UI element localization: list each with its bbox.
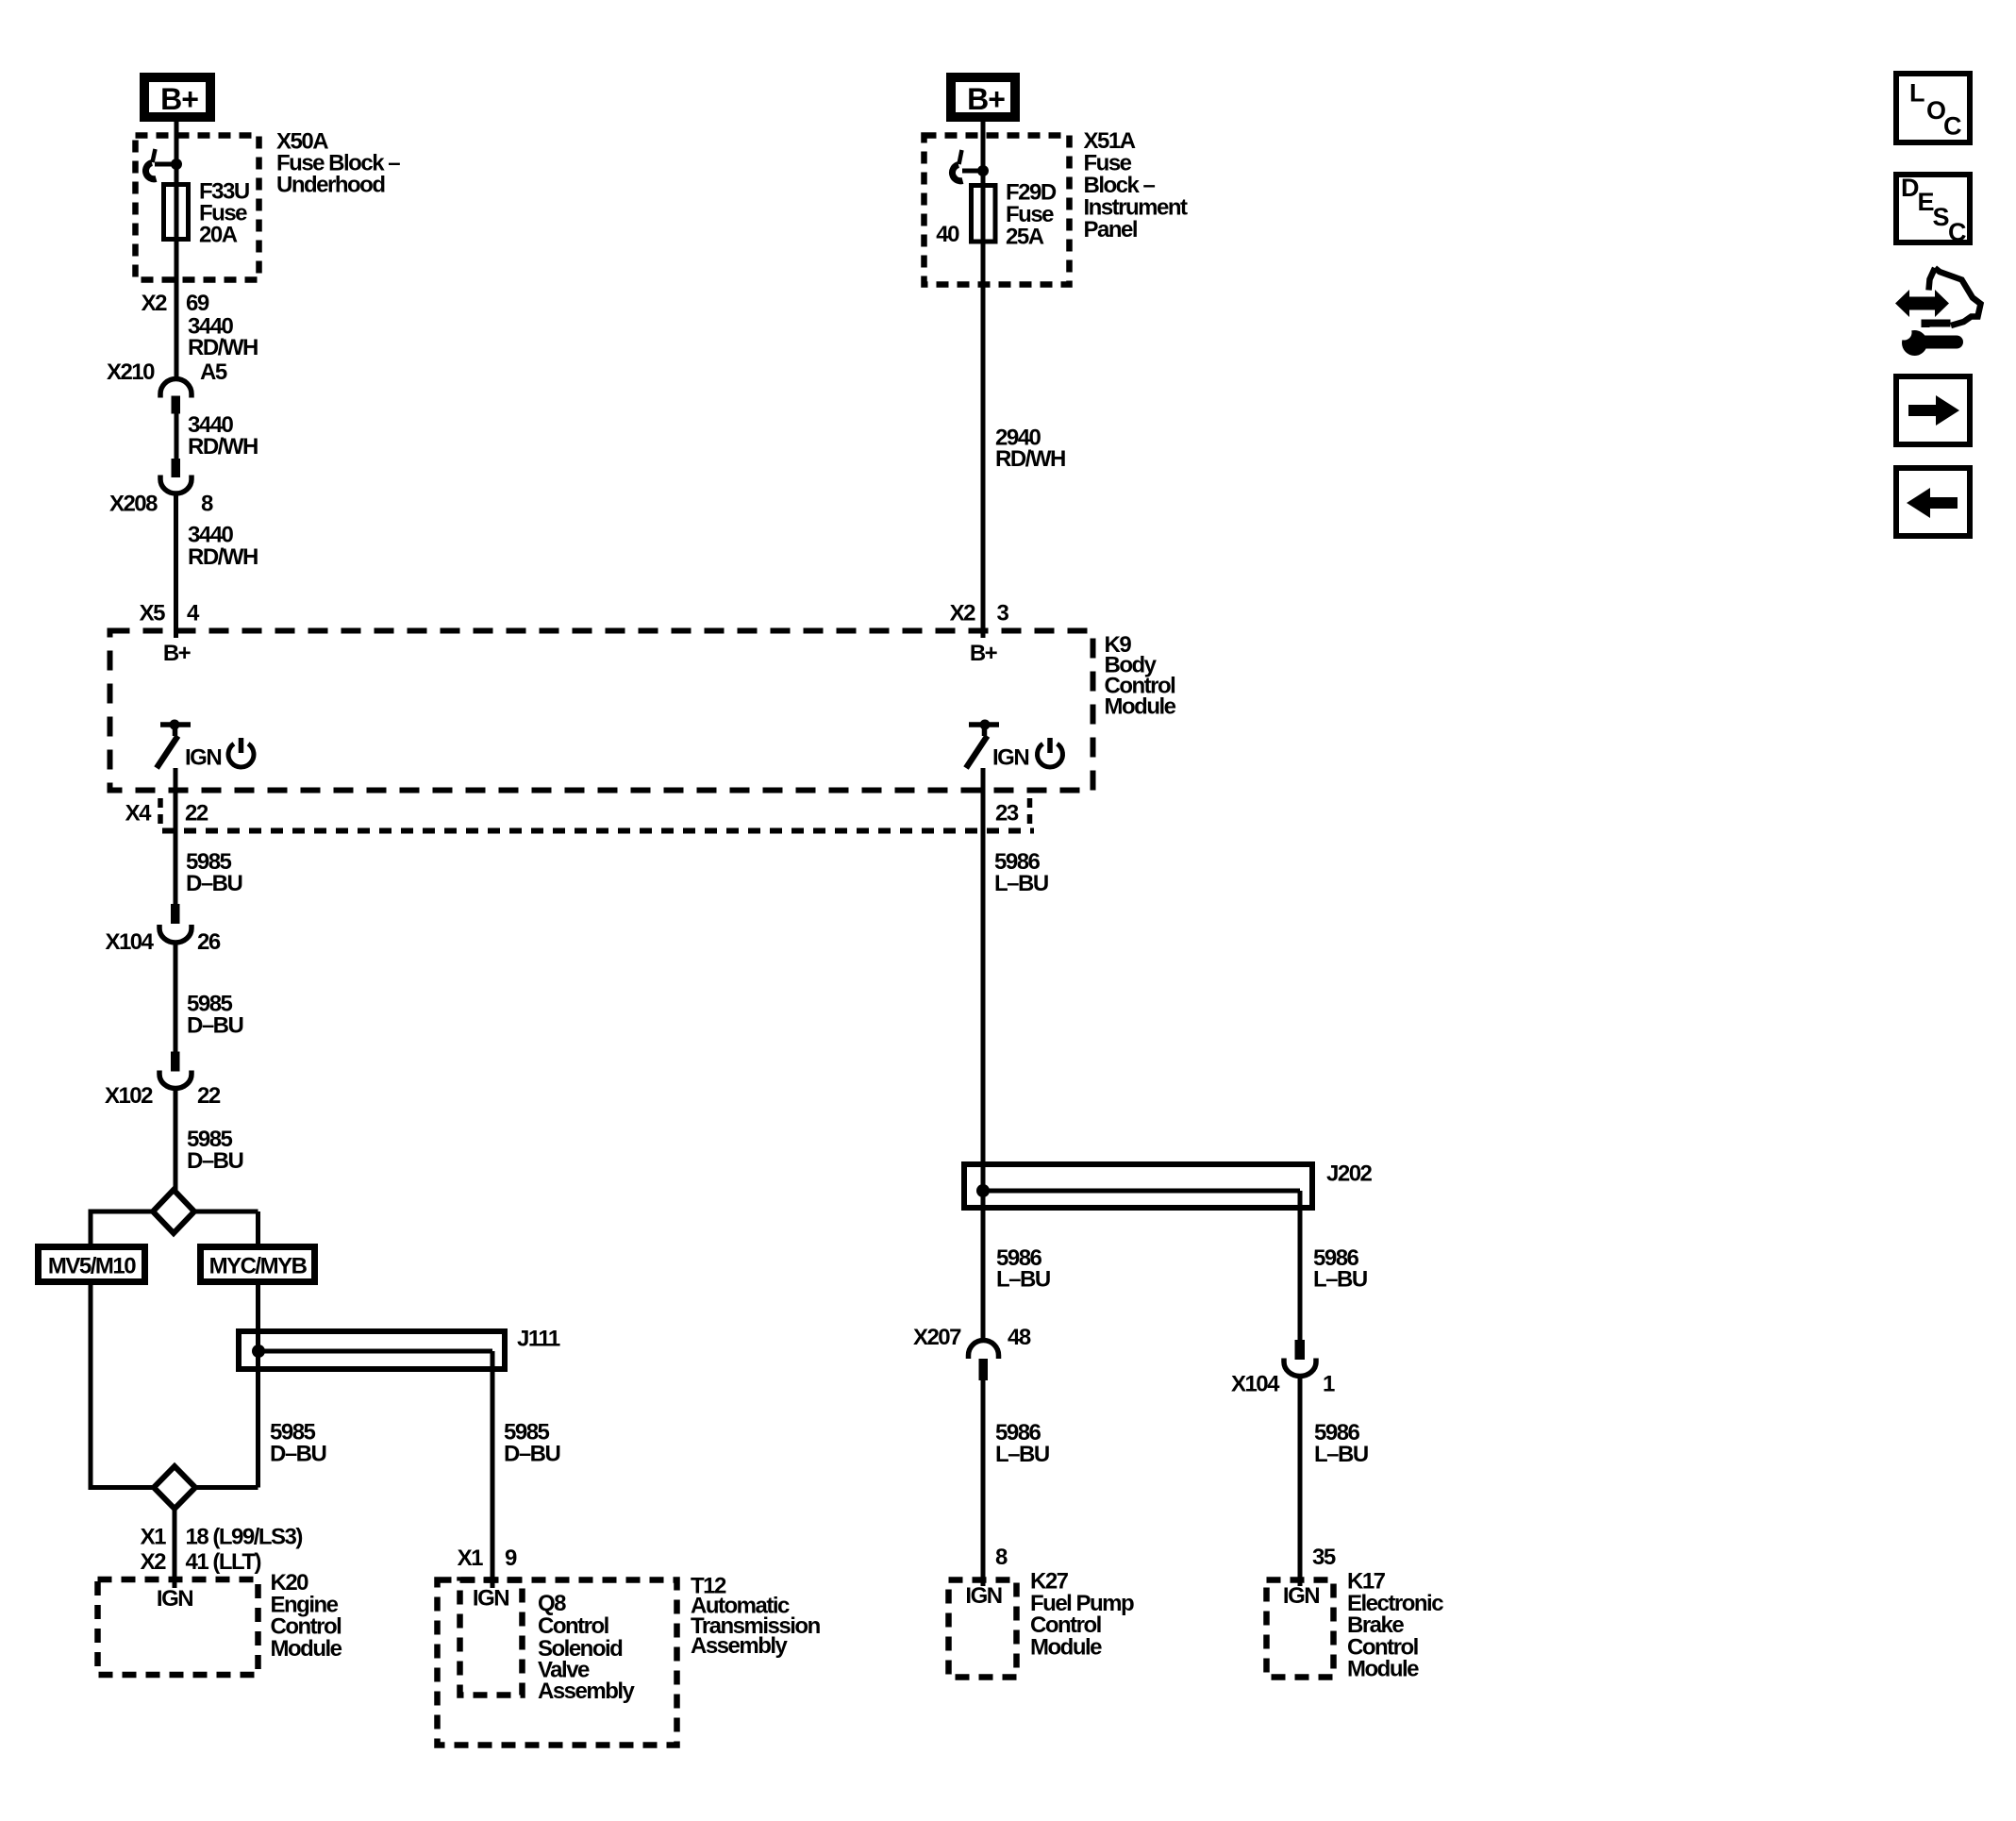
svg-text:RD/WH: RD/WH — [188, 434, 258, 459]
svg-text:9: 9 — [505, 1545, 517, 1571]
svg-text:X1: X1 — [141, 1525, 167, 1550]
svg-text:MYC/MYB: MYC/MYB — [209, 1254, 308, 1279]
svg-text:Module: Module — [271, 1636, 342, 1662]
svg-text:Module: Module — [1030, 1634, 1102, 1660]
svg-text:3: 3 — [997, 601, 1009, 626]
svg-text:X104: X104 — [1231, 1372, 1280, 1397]
svg-text:IGN: IGN — [965, 1583, 1001, 1609]
svg-text:MV5/M10: MV5/M10 — [48, 1254, 136, 1279]
svg-text:O: O — [1926, 96, 1945, 125]
svg-text:Underhood: Underhood — [276, 173, 385, 198]
svg-text:40: 40 — [936, 222, 959, 247]
svg-text:48: 48 — [1008, 1325, 1031, 1350]
svg-text:X4: X4 — [125, 801, 153, 827]
svg-text:X2: X2 — [141, 1549, 167, 1575]
svg-text:L–BU: L–BU — [994, 871, 1048, 896]
svg-text:IGN: IGN — [185, 745, 221, 771]
svg-text:X207: X207 — [913, 1325, 961, 1350]
svg-text:D–BU: D–BU — [186, 871, 242, 896]
svg-text:B+: B+ — [160, 82, 198, 116]
svg-text:C: C — [1943, 112, 1961, 141]
svg-text:Assembly: Assembly — [538, 1679, 636, 1704]
svg-text:41 (LLT): 41 (LLT) — [186, 1549, 261, 1575]
svg-text:E: E — [1918, 188, 1934, 216]
svg-text:S: S — [1933, 203, 1949, 231]
svg-text:D–BU: D–BU — [187, 1148, 243, 1174]
svg-text:RD/WH: RD/WH — [995, 446, 1065, 472]
svg-text:IGN: IGN — [473, 1586, 508, 1612]
svg-text:IGN: IGN — [992, 745, 1028, 771]
svg-text:X1: X1 — [458, 1545, 484, 1571]
svg-text:IGN: IGN — [157, 1586, 192, 1612]
svg-text:Assembly: Assembly — [691, 1633, 789, 1659]
svg-text:X104: X104 — [105, 929, 154, 955]
svg-text:X5: X5 — [140, 601, 166, 626]
svg-text:J202: J202 — [1326, 1161, 1373, 1187]
svg-text:C: C — [1948, 218, 1966, 246]
svg-text:B+: B+ — [967, 82, 1005, 116]
svg-text:X102: X102 — [105, 1083, 153, 1109]
svg-text:X2: X2 — [950, 601, 976, 626]
svg-text:Control: Control — [538, 1613, 608, 1639]
svg-text:26: 26 — [197, 929, 221, 955]
svg-text:J111: J111 — [517, 1327, 560, 1352]
svg-text:D: D — [1901, 174, 1919, 202]
svg-text:D–BU: D–BU — [504, 1442, 560, 1467]
svg-text:D–BU: D–BU — [187, 1013, 243, 1039]
svg-text:A5: A5 — [200, 359, 227, 385]
svg-text:20A: 20A — [199, 223, 238, 248]
svg-text:B+: B+ — [970, 641, 998, 666]
svg-text:8: 8 — [201, 492, 213, 517]
svg-text:8: 8 — [995, 1545, 1008, 1570]
svg-text:23: 23 — [995, 801, 1019, 827]
svg-text:Module: Module — [1347, 1657, 1419, 1682]
svg-text:22: 22 — [185, 801, 208, 827]
svg-text:69: 69 — [186, 291, 209, 316]
svg-text:18 (L99/LS3): 18 (L99/LS3) — [186, 1525, 303, 1550]
svg-text:IGN: IGN — [1283, 1583, 1319, 1609]
svg-text:L–BU: L–BU — [996, 1267, 1050, 1293]
svg-text:22: 22 — [197, 1083, 221, 1109]
svg-text:25A: 25A — [1006, 224, 1044, 249]
svg-text:35: 35 — [1312, 1545, 1336, 1570]
svg-text:RD/WH: RD/WH — [188, 335, 258, 360]
svg-text:RD/WH: RD/WH — [188, 544, 258, 570]
svg-text:X210: X210 — [107, 359, 155, 385]
svg-text:L–BU: L–BU — [1314, 1442, 1368, 1467]
svg-text:X2: X2 — [142, 291, 168, 316]
svg-text:B+: B+ — [163, 641, 192, 666]
svg-text:L: L — [1909, 79, 1924, 108]
svg-text:D–BU: D–BU — [270, 1442, 326, 1467]
svg-text:1: 1 — [1323, 1372, 1335, 1397]
svg-text:X208: X208 — [109, 492, 158, 517]
svg-text:Panel: Panel — [1084, 217, 1138, 242]
svg-text:Module: Module — [1105, 694, 1176, 720]
svg-text:L–BU: L–BU — [1313, 1267, 1367, 1293]
svg-text:Q8: Q8 — [538, 1591, 566, 1616]
svg-text:L–BU: L–BU — [995, 1442, 1049, 1467]
